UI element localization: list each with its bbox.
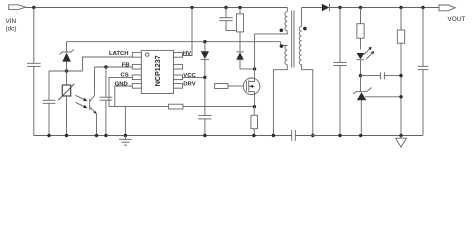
capacitor C8 output filter: [418, 8, 429, 136]
pin CS: [121, 73, 142, 80]
svg-text:HV: HV: [183, 51, 191, 57]
resistor R3 gate: [215, 84, 244, 89]
wire ground tap: [124, 107, 126, 136]
node divider junction: [399, 6, 402, 9]
svg-text:GND: GND: [115, 81, 128, 87]
wire LATCH riser: [83, 57, 133, 71]
diode D2 clamp: [236, 52, 254, 69]
node comp cap junction: [359, 74, 362, 77]
output terminal VOUT: [439, 5, 465, 23]
node C2 rail junction: [47, 134, 50, 137]
svg-text:VCC: VCC: [183, 73, 196, 79]
ground secondary chassis: [396, 136, 407, 148]
wire bottom rail primary: [34, 135, 292, 137]
svg-text:VOUT: VOUT: [448, 16, 466, 23]
opto light arrow 1: [76, 95, 88, 101]
wire VCC pin net: [182, 76, 205, 78]
svg-text:LATCH: LATCH: [109, 51, 129, 57]
resistor R7 divider upper: [397, 8, 404, 136]
svg-text:(dc): (dc): [6, 26, 17, 33]
node secondary polarity dot: [303, 27, 307, 31]
node C6 rail junction: [338, 134, 341, 137]
wire GND net: [115, 86, 133, 107]
diode D3 output rectifier: [302, 4, 439, 11]
node HV riser junction: [190, 6, 193, 9]
node zener anode junction: [65, 69, 68, 72]
capacitor C2 latch filter: [43, 71, 56, 136]
LED D4 optocoupler: [357, 53, 365, 76]
node primary polarity dot: [280, 29, 284, 33]
capacitor C1 input bulk: [27, 8, 41, 136]
shunt regulator U3 TL431: [353, 76, 372, 136]
node D1 anode junction: [203, 40, 206, 43]
node C4 rail junction: [203, 134, 206, 137]
wire clamp line: [67, 41, 281, 43]
resistor R4 CS filter: [169, 104, 255, 109]
svg-text:FB: FB: [122, 62, 130, 68]
node FB cap junction: [104, 65, 107, 68]
node opto emitter rail junction: [95, 134, 98, 137]
optocoupler phototransistor Q2: [90, 67, 97, 136]
pin VCC: [174, 73, 197, 80]
node divider rail junction: [399, 134, 402, 137]
op-amp U1 controller NCP1237: [141, 50, 173, 93]
wire top rail primary: [26, 7, 288, 9]
pin NC: [174, 64, 183, 69]
capacitor C9 Y-cap: [292, 130, 423, 141]
diode D1 VCC charge: [201, 42, 209, 78]
node auxiliary rail junction: [272, 134, 275, 137]
zener diode Z1 OVP: [60, 42, 74, 71]
svg-text:VIN: VIN: [6, 18, 17, 25]
input terminal VIN: [6, 5, 26, 33]
capacitor C5 snubber: [219, 8, 240, 31]
node output cap junction: [338, 6, 341, 9]
transformer T1 secondary: [299, 8, 313, 136]
node LED branch junction: [359, 6, 362, 9]
resistor R5 sense: [251, 107, 258, 136]
node snubber cap junction: [224, 6, 227, 9]
pin LATCH: [109, 51, 141, 57]
wire CS sense line: [109, 106, 169, 108]
capacitor C4 VCC: [198, 77, 211, 135]
capacitor C7 compensation: [361, 72, 402, 79]
node drain junction: [253, 67, 256, 70]
svg-text:CS: CS: [121, 73, 129, 79]
node ground tap rail junction: [124, 134, 127, 137]
ground earth symbol: [119, 136, 132, 146]
LED light arrow 1: [364, 47, 372, 55]
wire latch node horizontal: [49, 70, 83, 72]
wire reference line: [365, 96, 401, 98]
svg-text:DRV: DRV: [183, 81, 195, 87]
node C3 rail junction: [104, 134, 107, 137]
svg-text:NCP1237: NCP1237: [153, 55, 162, 86]
node sense junction: [253, 105, 256, 108]
capacitor C3 FB filter: [100, 67, 113, 136]
thermistor NTC: [58, 71, 74, 136]
resistor R2 snubber: [236, 8, 243, 52]
wire HV startup: [182, 8, 192, 56]
node C8 junction: [421, 6, 424, 9]
node NTC rail junction: [65, 134, 68, 137]
node secondary rail junction: [311, 134, 314, 137]
node R5 rail junction: [252, 134, 255, 137]
node auxiliary polarity dot: [280, 44, 284, 48]
pin HV: [174, 51, 192, 57]
capacitor C6 output: [333, 8, 346, 136]
pin GND: [115, 81, 142, 88]
transformer T1 auxiliary winding: [273, 42, 287, 136]
node VCC junction: [203, 76, 206, 79]
wire FB net: [95, 66, 133, 68]
transformer T1 primary: [255, 8, 288, 69]
node ref junction divider: [399, 95, 402, 98]
LED light arrow 2: [366, 51, 374, 59]
transistor Q1 MOSFET: [243, 69, 260, 107]
node TL431 rail junction: [359, 134, 362, 137]
pin FB: [122, 62, 142, 69]
opto light arrow 2: [76, 102, 88, 108]
node VIN junction: [32, 6, 35, 9]
wire CS net: [109, 77, 132, 106]
node comp junction divider: [399, 74, 402, 77]
resistor R6 LED series: [357, 8, 364, 50]
node snubber resistor junction: [238, 6, 241, 9]
pin DRV: [174, 81, 196, 88]
transformer T1 core: [292, 11, 294, 68]
